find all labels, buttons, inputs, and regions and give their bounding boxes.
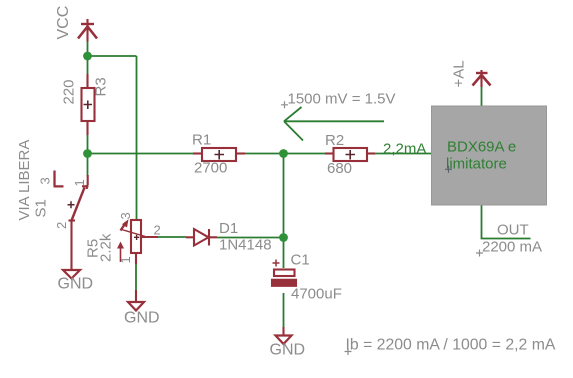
trimmer R5 pin2 stub [141,236,158,238]
wire trimmer R5 pin2 to diode D1 anode [158,236,186,238]
svg-text:1N4148: 1N4148 [219,237,272,254]
resistor R3 body [82,74,95,135]
svg-text:VIA LIBERA: VIA LIBERA [16,140,33,221]
current arrow head lower barb [284,121,303,140]
node D junction dot [279,233,288,242]
svg-text:2200 mA: 2200 mA [482,238,542,255]
wire +AL symbol to BDX69A box top [481,86,483,106]
svg-text:2,2mA: 2,2mA [383,141,426,158]
wire diode D1 cathode to node D [217,237,284,239]
capacitor C1 bottom plate [272,280,296,286]
svg-text:2: 2 [54,222,69,229]
wire R3 bottom to node B [87,135,89,154]
wire node C down to node D [283,154,285,238]
svg-text:GND: GND [270,342,306,359]
wire capacitor C1 minus toward ground [283,293,285,327]
capacitor C1 stub into GND3 [282,327,284,336]
svg-text:+AL: +AL [451,60,468,87]
svg-text:limitatore: limitatore [446,156,507,173]
trimmer R5 pin1 stub [135,253,137,264]
svg-text:1: 1 [118,256,133,263]
node A junction dot [83,52,92,61]
trimmer R5 adjustment up-arrow near pin1 [117,242,124,263]
svg-text:R3: R3 [93,77,110,96]
wire node A to top of right branch [88,55,137,57]
diode D1 triangle [194,229,209,246]
svg-text:GND: GND [124,310,160,327]
wire node D down to capacitor C1 plus [283,238,285,269]
svg-text:1: 1 [72,179,87,186]
switch S1 origin cross [68,201,75,208]
current arrow head upper barb [284,107,302,121]
node B junction dot [83,149,92,158]
diode D1 anode stub [186,236,194,238]
wire BDX69A box bottom to OUT corner [482,205,531,239]
current arrow 1.5V measurement line [284,120,384,122]
switch S1 pin1 stub and contact [82,175,89,189]
svg-text:3: 3 [118,212,133,219]
svg-text:C1: C1 [291,252,310,269]
wire node B to R1 left [88,153,194,155]
wire R1 right to node C [245,153,284,155]
wire R2 right to BDX69A box [375,153,432,155]
trimmer R5 wiper arrow [121,219,148,237]
svg-text:GND: GND [58,276,94,293]
capacitor C1 top plate [274,270,295,277]
svg-text:R2: R2 [325,132,344,149]
ground GND1 symbol (below switch) [63,270,80,279]
svg-text:R1: R1 [192,132,211,149]
svg-text:2: 2 [154,223,161,238]
svg-text:4700uF: 4700uF [291,286,342,303]
wire node A to R3 top [87,56,89,74]
ground GND2 symbol (below trimmer) [128,302,144,311]
svg-text:Ib = 2200 mA / 1000 = 2,2 mA: Ib = 2200 mA / 1000 = 2,2 mA [346,336,556,353]
wire node B to switch S1 pin1 [87,154,89,177]
text anchor cross limitatore [445,166,452,173]
svg-text:1500 mV = 1.5V: 1500 mV = 1.5V [288,91,396,108]
wire right branch down to trimmer R5 pin3 [136,56,138,220]
node C junction dot [279,149,288,158]
transistor BDX69A block [432,106,547,205]
resistor R1 body [193,148,245,161]
switch S1 lever [72,188,85,221]
svg-text:680: 680 [327,160,352,177]
+AL power symbol arrow [473,70,491,87]
svg-text:D1: D1 [219,220,238,237]
VCC power symbol arrow [78,19,97,42]
text anchor cross 1500 [281,101,288,108]
switch S1 pin3 bent stub [54,171,64,187]
svg-text:3: 3 [38,177,53,184]
svg-text:2.2k: 2.2k [98,233,115,262]
svg-text:S1: S1 [33,199,50,217]
switch S1 pin2 contact and wire to GND [69,221,76,271]
wire VCC symbol to node A [87,42,89,57]
svg-text:2700: 2700 [194,160,227,177]
diode D1 cathode bar and stub [209,229,217,246]
resistor R2 body [325,148,375,161]
svg-text:OUT: OUT [497,222,529,239]
svg-text:BDX69A e: BDX69A e [447,139,516,156]
trimmer R5 body [131,220,141,253]
svg-text:220: 220 [61,79,78,104]
wire node C to R2 left [284,153,326,155]
svg-text:VCC: VCC [55,6,72,40]
ground GND3 symbol (below capacitor) [276,336,292,345]
text anchor cross Ib [345,348,352,355]
capacitor C1 plus sign [273,260,280,267]
wire trimmer R5 pin1 toward ground [135,263,137,291]
text anchor cross 2200 [476,250,483,257]
trimmer R5 stub into GND2 [135,290,137,302]
